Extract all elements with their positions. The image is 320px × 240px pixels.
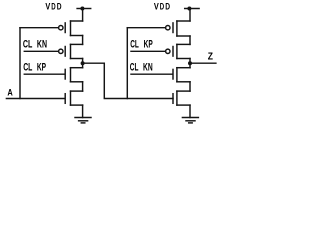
svg-text:KP: KP xyxy=(144,38,153,50)
node A rail (left vertical) xyxy=(19,28,21,99)
transistor M3 (NMOS, gate CL KP) xyxy=(65,68,82,82)
wire gate M6 (CL KP) xyxy=(131,50,165,52)
wire M4 source to ground xyxy=(82,105,84,117)
svg-text:A: A xyxy=(7,87,13,97)
svg-text:CL: CL xyxy=(130,62,139,74)
wire gate M3 (CL KP) xyxy=(24,73,64,75)
wire M3 source to M4 drain xyxy=(82,82,84,91)
VDD power bar (right) xyxy=(185,8,199,10)
transistor M4 (NMOS, gate A) xyxy=(65,91,82,105)
svg-text:D: D xyxy=(57,1,62,11)
transistor M1 (PMOS, gate A) xyxy=(59,21,83,36)
wire M8 source to ground xyxy=(189,105,191,117)
transistor M5 (PMOS, gate from stage1) xyxy=(166,21,190,36)
svg-text:KN: KN xyxy=(37,38,47,50)
node rail (right stage input) xyxy=(126,28,128,99)
wire gate M1 from A rail xyxy=(20,27,58,29)
wire M5 source to M6 drain xyxy=(189,36,191,44)
svg-text:CL: CL xyxy=(23,38,33,50)
transistor M8 (NMOS, gate from stage1) xyxy=(173,91,190,105)
transistor M7 (NMOS, gate CL KN) xyxy=(173,68,190,82)
wire M7 source to M8 drain xyxy=(189,82,191,91)
wire gate M2 (CL KN) xyxy=(24,50,58,52)
wire left output to right stage gate net xyxy=(83,63,173,98)
junction dot output Z xyxy=(188,61,192,65)
svg-text:V: V xyxy=(45,1,51,11)
junction dot VDD right xyxy=(187,7,191,11)
svg-text:Z: Z xyxy=(208,52,213,63)
wire M6 source to M7 drain (output node) xyxy=(189,59,191,68)
svg-text:CL: CL xyxy=(130,38,139,50)
svg-text:D: D xyxy=(51,1,56,11)
svg-text:V: V xyxy=(154,1,160,11)
wire M1 source to M2 drain xyxy=(82,36,84,45)
wire input A xyxy=(6,98,64,100)
ground (right) xyxy=(182,118,198,123)
svg-text:D: D xyxy=(160,1,165,11)
VDD power bar (left) xyxy=(77,8,91,10)
wire VDD to M1 drain xyxy=(82,9,84,22)
transistor M6 (PMOS, gate CL KP) xyxy=(166,44,190,58)
svg-text:CL: CL xyxy=(23,62,32,74)
wire gate M5 from internal rail xyxy=(127,27,165,29)
svg-text:KP: KP xyxy=(37,62,46,74)
wire output Z xyxy=(190,62,216,64)
junction dot node left output xyxy=(81,61,85,65)
junction dot VDD left xyxy=(80,7,84,11)
wire M2 source to M3 drain (internal node) xyxy=(82,59,84,68)
ground (left) xyxy=(75,118,91,123)
transistor M2 (PMOS, gate CL KN) xyxy=(59,44,83,58)
svg-text:KN: KN xyxy=(143,62,153,74)
wire VDD to M5 drain xyxy=(189,9,191,22)
svg-text:D: D xyxy=(165,1,170,11)
wire gate M7 (CL KN) xyxy=(131,73,172,75)
